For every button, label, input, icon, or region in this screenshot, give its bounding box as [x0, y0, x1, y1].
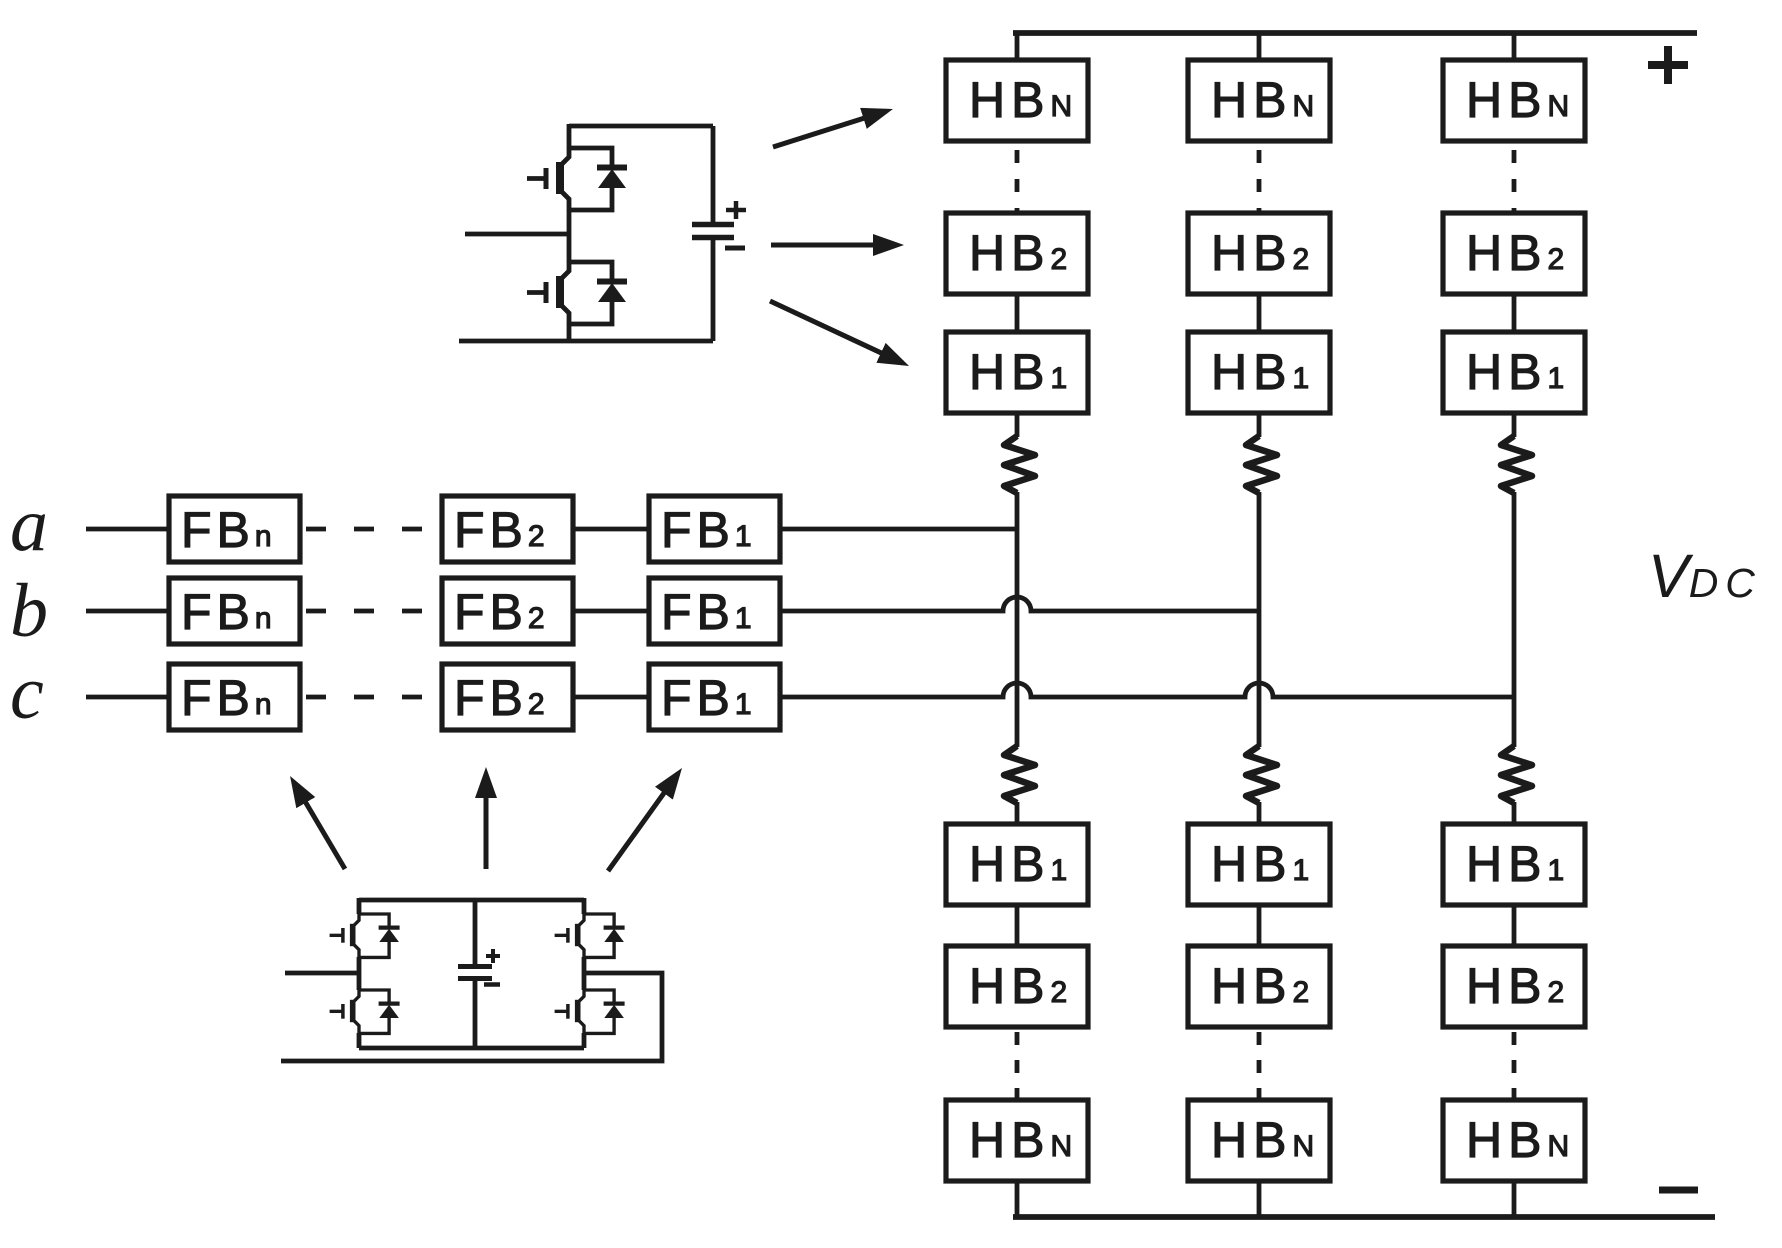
submodule HB_2 box leg 3 upper arm: [1443, 213, 1585, 294]
node: C1 minus polarity: [725, 246, 745, 251]
inductor L lower leg 2 (arm inductor): [1246, 746, 1277, 803]
svg-text:HB2: HB2: [1466, 225, 1565, 281]
svg-text:FB1: FB1: [661, 502, 753, 558]
wire: FB_2 to FB_1 phase b: [573, 609, 649, 614]
submodule HB_2 box leg 1 lower arm: [946, 946, 1088, 1027]
svg-text:HB2: HB2: [1466, 958, 1565, 1014]
wire: HB_2 to HB_1 upper arm leg 1: [1015, 292, 1020, 334]
submodule HB_2 box leg 1 upper arm: [946, 213, 1088, 294]
submodule HB_N box leg 1 upper arm: [946, 60, 1088, 141]
wire: lower HB_N to bottom bus leg 3: [1512, 1180, 1517, 1217]
wire: HB_1 to upper inductor leg 3: [1512, 411, 1517, 437]
wire: FB detail top rail: [359, 898, 584, 903]
submodule HB_N box leg 1 lower arm: [946, 1100, 1088, 1181]
wire: phase c to leg 3 junction (hops over legs 1 and 2): [780, 683, 1514, 697]
arrow: HB detail to HB_N submodule: [773, 111, 886, 147]
wire: FB_2 to FB_1 phase a: [573, 527, 649, 532]
wire: lower HB_N to bottom bus leg 1: [1015, 1180, 1020, 1217]
wire: top bus to upper HB_N leg 3: [1512, 33, 1517, 62]
arrow: HB detail to HB_2 submodule: [771, 243, 897, 248]
wire: HB_1 to HB_2 lower arm leg 1: [1015, 904, 1020, 948]
cell FB_1 box phase b: [649, 578, 780, 644]
svg-text:FB2: FB2: [454, 584, 546, 640]
inductor L upper leg 2 (arm inductor): [1246, 436, 1277, 493]
wire: FB detail right leg rail: [582, 898, 587, 1048]
submodule HB_1 box leg 2 upper arm: [1188, 332, 1330, 413]
IGBT S3 with antiparallel diode (left upper): [330, 913, 400, 958]
wire: FB detail right midpoint to return: [281, 973, 662, 1061]
wire: FB_2 to FB_1 phase c: [573, 695, 649, 700]
node: C2 plus polarity: [486, 949, 500, 963]
svg-text:HBN: HBN: [1211, 1112, 1315, 1168]
wire: lower inductor to HB_1 leg 1: [1015, 802, 1020, 826]
wire: phase a input lead: [86, 527, 169, 532]
wire: lower inductor to HB_1 leg 2: [1257, 802, 1262, 826]
inductor L upper leg 1 (arm inductor): [1004, 436, 1035, 493]
svg-text:FB2: FB2: [454, 502, 546, 558]
svg-text:HBN: HBN: [1466, 1112, 1570, 1168]
node: C1 plus polarity: [726, 201, 746, 219]
svg-text:HB1: HB1: [969, 344, 1068, 400]
wire: HB_2 to HB_1 upper arm leg 3: [1512, 292, 1517, 334]
wire: leg 1 mid vertical (junction node a at y=529): [1015, 492, 1020, 747]
wire: top bus to upper HB_N leg 2: [1257, 33, 1262, 62]
submodule HB_1 box leg 3 upper arm: [1443, 332, 1585, 413]
submodule HB_2 box leg 3 lower arm: [1443, 946, 1585, 1027]
svg-text:a: a: [10, 483, 48, 567]
wire: dashed series link upper arm leg 2: [1257, 150, 1262, 213]
submodule HB_N box leg 2 upper arm: [1188, 60, 1330, 141]
wire: HB_1 to HB_2 lower arm leg 2: [1257, 904, 1262, 948]
wire: leg 2 mid vertical (junction node b at y=611): [1257, 492, 1262, 747]
arrow: HB detail to HB_1 submodule: [770, 301, 903, 363]
wire: dashed link FB_n to FB_2 phase b: [306, 609, 442, 614]
submodule HB_N box leg 2 lower arm: [1188, 1100, 1330, 1181]
wire: HB detail bottom rail / return lead: [459, 339, 713, 344]
IGBT S6 with antiparallel diode (right lower): [555, 989, 625, 1034]
cell FB_2 box phase a: [442, 496, 573, 562]
svg-text:VDC: VDC: [1648, 542, 1762, 610]
wire: HB detail midpoint AC lead: [465, 232, 569, 237]
wire: HB detail top rail: [569, 124, 713, 129]
wire: dashed series link lower arm leg 2: [1257, 1032, 1262, 1100]
svg-text:FB1: FB1: [661, 670, 753, 726]
wire: dashed link FB_n to FB_2 phase a: [306, 527, 442, 532]
svg-text:HB1: HB1: [1466, 836, 1565, 892]
submodule HB_N box leg 3 upper arm: [1443, 60, 1585, 141]
wire: dashed link FB_n to FB_2 phase c: [306, 695, 442, 700]
svg-text:HB1: HB1: [1211, 836, 1310, 892]
IGBT S4 with antiparallel diode (left lower): [330, 989, 400, 1034]
wire: HB detail left leg rail: [567, 124, 572, 341]
capacitor C1 (HB DC-link): [692, 126, 734, 341]
wire: top DC bus (+): [1013, 30, 1697, 36]
submodule HB_1 box leg 3 lower arm: [1443, 824, 1585, 905]
svg-text:FB2: FB2: [454, 670, 546, 726]
wire: dashed series link lower arm leg 3: [1512, 1032, 1517, 1100]
wire: leg 3 mid vertical (junction node c at y=697): [1512, 492, 1517, 747]
wire: HB_1 to HB_2 lower arm leg 3: [1512, 904, 1517, 948]
svg-text:HBN: HBN: [969, 1112, 1073, 1168]
IGBT S1 with antiparallel diode (upper): [527, 147, 627, 211]
svg-text:FBn: FBn: [181, 670, 273, 726]
wire: dashed series link lower arm leg 1: [1015, 1032, 1020, 1100]
submodule HB_1 box leg 2 lower arm: [1188, 824, 1330, 905]
svg-text:c: c: [10, 651, 44, 735]
arrow: FB detail to FB_2 cell: [484, 774, 489, 869]
cell FB_n box phase a: [169, 496, 300, 562]
svg-text:HB1: HB1: [1211, 344, 1310, 400]
IGBT S2 with antiparallel diode (lower): [527, 261, 627, 325]
node - (negative DC terminal label): [1659, 1187, 1698, 1194]
cell FB_n box phase c: [169, 664, 300, 730]
svg-text:HB2: HB2: [1211, 225, 1310, 281]
wire: HB_2 to HB_1 upper arm leg 2: [1257, 292, 1262, 334]
submodule HB_1 box leg 1 upper arm: [946, 332, 1088, 413]
wire: FB detail bottom rail: [359, 1046, 584, 1051]
svg-text:HB2: HB2: [969, 958, 1068, 1014]
wire: HB_1 to upper inductor leg 2: [1257, 411, 1262, 437]
svg-text:HBN: HBN: [969, 72, 1073, 128]
wire: HB_1 to upper inductor leg 1: [1015, 411, 1020, 437]
node + (positive DC terminal label): [1648, 46, 1688, 84]
wire: phase b to leg 2 junction (hop over leg 1): [780, 597, 1259, 611]
submodule HB_N box leg 3 lower arm: [1443, 1100, 1585, 1181]
cell FB_2 box phase b: [442, 578, 573, 644]
wire: FB detail left leg rail: [357, 898, 362, 1048]
svg-text:HB2: HB2: [969, 225, 1068, 281]
submodule HB_2 box leg 2 lower arm: [1188, 946, 1330, 1027]
inductor L upper leg 3 (arm inductor): [1501, 436, 1532, 493]
cell FB_1 box phase a: [649, 496, 780, 562]
wire: phase c input lead: [86, 695, 169, 700]
svg-text:FBn: FBn: [181, 584, 273, 640]
svg-text:HB2: HB2: [1211, 958, 1310, 1014]
svg-text:FB1: FB1: [661, 584, 753, 640]
wire: bottom DC bus (-): [1013, 1214, 1715, 1220]
cell FB_1 box phase c: [649, 664, 780, 730]
wire: FB detail left AC input lead: [285, 971, 359, 976]
svg-text:HBN: HBN: [1466, 72, 1570, 128]
cell FB_n box phase b: [169, 578, 300, 644]
svg-text:HB1: HB1: [969, 836, 1068, 892]
node: C2 minus polarity: [484, 982, 500, 987]
arrow: FB detail to FB_1 cell: [608, 774, 678, 871]
IGBT S5 with antiparallel diode (right upper): [555, 913, 625, 958]
capacitor C2 (FB DC-link): [458, 900, 492, 1048]
submodule HB_1 box leg 1 lower arm: [946, 824, 1088, 905]
inductor L lower leg 1 (arm inductor): [1004, 746, 1035, 803]
wire: phase a to leg 1 junction: [780, 527, 1017, 532]
wire: lower inductor to HB_1 leg 3: [1512, 802, 1517, 826]
cell FB_2 box phase c: [442, 664, 573, 730]
wire: top bus to upper HB_N leg 1: [1015, 33, 1020, 62]
wire: dashed series link upper arm leg 3: [1512, 150, 1517, 213]
submodule HB_2 box leg 2 upper arm: [1188, 213, 1330, 294]
svg-text:HBN: HBN: [1211, 72, 1315, 128]
svg-text:HB1: HB1: [1466, 344, 1565, 400]
wire: lower HB_N to bottom bus leg 2: [1257, 1180, 1262, 1217]
svg-text:b: b: [10, 569, 48, 653]
wire: phase b input lead: [86, 609, 169, 614]
arrow: FB detail to FB_n cell: [294, 782, 345, 869]
wire: dashed series link upper arm leg 1: [1015, 150, 1020, 213]
svg-text:FBn: FBn: [181, 502, 273, 558]
inductor L lower leg 3 (arm inductor): [1501, 746, 1532, 803]
